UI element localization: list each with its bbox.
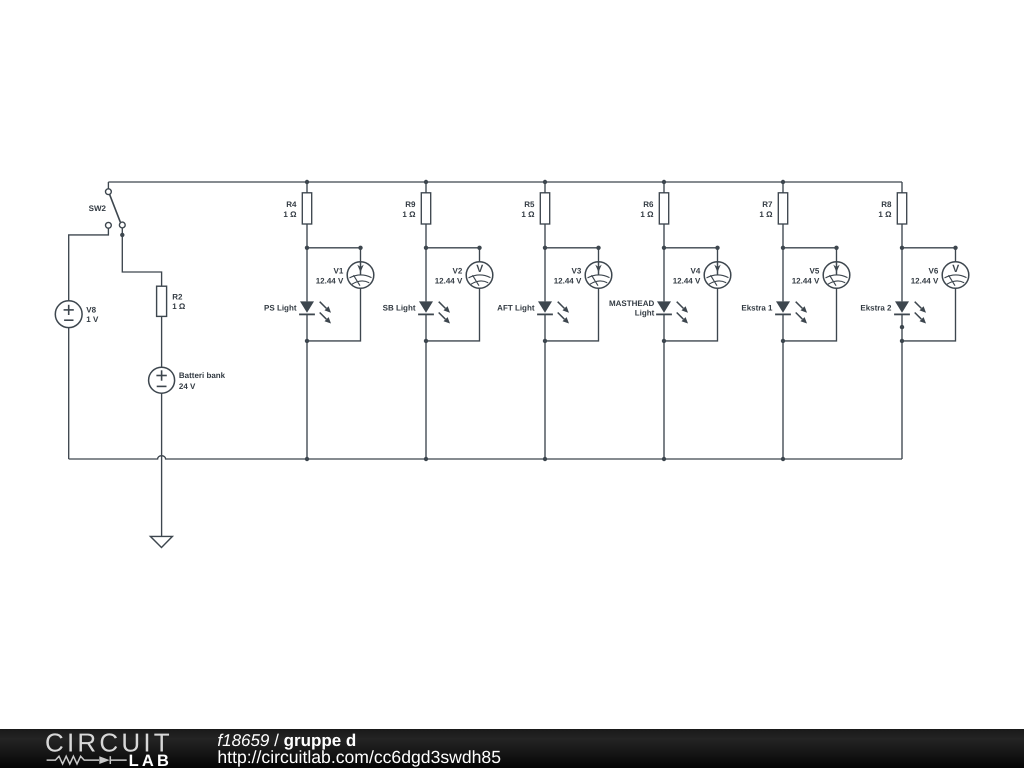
wire tee to voltmeter V1 — [307, 248, 361, 262]
wire R4 to LED PS Light — [306, 224, 308, 301]
resistor R6 1 Ohm — [659, 193, 668, 224]
voltage source Batteri bank 24 V — [149, 367, 175, 393]
svg-text:1 Ω: 1 Ω — [878, 210, 892, 219]
wire R2 to battery — [161, 316, 163, 367]
svg-text:1 Ω: 1 Ω — [640, 210, 654, 219]
junction tee at branch R6 — [662, 246, 666, 250]
resistor R2 1 Ohm — [157, 286, 167, 316]
wire tee to voltmeter V6 — [902, 248, 956, 262]
junction at voltmeter V6 top — [953, 246, 957, 250]
svg-text:V5: V5 — [810, 267, 820, 276]
junction bottom tee at branch R5 — [543, 339, 547, 343]
wire LED SB Light to bottom tee — [425, 314, 427, 341]
svg-text:12.44 V: 12.44 V — [435, 276, 463, 285]
svg-text:Ekstra 1: Ekstra 1 — [741, 303, 773, 312]
svg-text:R7: R7 — [762, 200, 773, 209]
wire R7 to LED Ekstra 1 — [782, 224, 784, 301]
voltmeter V2 — [466, 262, 493, 289]
LED AFT Light — [537, 301, 569, 323]
wire R9 to LED SB Light — [425, 224, 427, 301]
junction top rail at R6 — [662, 180, 666, 184]
junction bottom tee at branch R7 — [781, 339, 785, 343]
junction bottom tee at branch R8 — [900, 339, 904, 343]
junction top rail at R9 — [424, 180, 428, 184]
wire top rail to R6 — [663, 182, 665, 193]
svg-text:LAB: LAB — [129, 752, 173, 768]
switch SW2 — [106, 182, 126, 228]
voltmeter V6 — [942, 262, 969, 289]
svg-text:12.44 V: 12.44 V — [792, 276, 820, 285]
svg-text:24 V: 24 V — [179, 382, 196, 391]
junction at voltmeter V2 top — [477, 246, 481, 250]
svg-text:1 Ω: 1 Ω — [759, 210, 773, 219]
wire V8 to bottom rail — [68, 328, 70, 459]
junction tee at branch R7 — [781, 246, 785, 250]
svg-text:AFT Light: AFT Light — [497, 303, 535, 312]
svg-text:V2: V2 — [453, 267, 463, 276]
svg-text:R2: R2 — [172, 292, 183, 301]
LED SB Light — [418, 301, 450, 323]
wire top rail to R9 — [425, 182, 427, 193]
svg-text:Batteri bank: Batteri bank — [179, 371, 226, 380]
svg-text:12.44 V: 12.44 V — [673, 276, 701, 285]
junction top rail at R7 — [781, 180, 785, 184]
wire branch R6 to bottom rail — [663, 341, 665, 459]
resistor R9 1 Ohm — [421, 193, 430, 224]
svg-text:MASTHEAD: MASTHEAD — [609, 299, 655, 308]
svg-text:R5: R5 — [524, 200, 535, 209]
svg-text:V4: V4 — [691, 267, 701, 276]
wire voltmeter V1 return — [307, 288, 361, 341]
svg-text:Light: Light — [635, 309, 655, 318]
wire branch R7 to bottom rail — [782, 341, 784, 459]
wire branch R5 to bottom rail — [544, 341, 546, 459]
wire SW2 common to R2 — [122, 228, 161, 286]
junction bottom tee at branch R4 — [305, 339, 309, 343]
junction at voltmeter V5 top — [834, 246, 838, 250]
wire top rail to R4 — [306, 182, 308, 193]
junction SW2 common net — [120, 233, 124, 237]
wire voltmeter V2 return — [426, 288, 480, 341]
svg-text:12.44 V: 12.44 V — [316, 276, 344, 285]
voltmeter V5 — [823, 262, 850, 289]
svg-text:SB Light: SB Light — [383, 303, 416, 312]
svg-text:12.44 V: 12.44 V — [911, 276, 939, 285]
wire voltmeter V5 return — [783, 288, 837, 341]
svg-text:V: V — [476, 263, 483, 275]
wire tee to voltmeter V2 — [426, 248, 480, 262]
svg-text:Ekstra 2: Ekstra 2 — [860, 303, 892, 312]
wire LED PS Light to bottom tee — [306, 314, 308, 341]
CircuitLab logo resistor-diode symbol — [47, 756, 127, 764]
junction at voltmeter V3 top — [596, 246, 600, 250]
svg-text:PS Light: PS Light — [264, 303, 297, 312]
wire LED MASTHEAD Light to bottom tee — [663, 314, 665, 341]
voltmeter V4 — [704, 262, 731, 289]
svg-text:V: V — [952, 263, 959, 275]
wire top rail net — [108, 181, 902, 183]
junction tee at branch R5 — [543, 246, 547, 250]
wire top rail to R7 — [782, 182, 784, 193]
junction tee at branch R4 — [305, 246, 309, 250]
wire branch R8 to bottom rail — [901, 341, 903, 459]
junction bottom rail at R7 — [781, 457, 785, 461]
wire voltmeter V4 return — [664, 288, 718, 341]
wire top rail to R8 — [901, 182, 903, 193]
voltmeter V1 — [347, 262, 374, 289]
wire battery to ground (crosses bottom rail) — [161, 393, 163, 536]
voltmeter V3 — [585, 262, 612, 289]
svg-text:V6: V6 — [929, 267, 939, 276]
svg-text:V1: V1 — [334, 267, 344, 276]
wire LED Ekstra 1 to bottom tee — [782, 314, 784, 341]
svg-text:R9: R9 — [405, 200, 416, 209]
wire tee to voltmeter V4 — [664, 248, 718, 262]
LED PS Light — [299, 301, 331, 323]
resistor R7 1 Ohm — [778, 193, 787, 224]
svg-text:V8: V8 — [86, 305, 96, 314]
svg-text:1 V: 1 V — [86, 315, 99, 324]
wire LED AFT Light to bottom tee — [544, 314, 546, 341]
wire LED Ekstra 2 to bottom tee — [901, 314, 903, 341]
wire branch R9 to bottom rail — [425, 341, 427, 459]
junction bottom tee at branch R6 — [662, 339, 666, 343]
junction bottom rail at R4 — [305, 457, 309, 461]
ground symbol — [150, 536, 172, 547]
junction bottom tee at branch R9 — [424, 339, 428, 343]
voltage source V8 1V — [55, 301, 82, 328]
svg-text:1 Ω: 1 Ω — [172, 302, 186, 311]
LED Ekstra 1 — [775, 301, 807, 323]
svg-text:http://circuitlab.com/cc6dgd3s: http://circuitlab.com/cc6dgd3swdh85 — [217, 747, 501, 767]
junction bottom rail at R9 — [424, 457, 428, 461]
LED Ekstra 2 — [894, 301, 926, 323]
junction top rail at R5 — [543, 180, 547, 184]
wire R5 to LED AFT Light — [544, 224, 546, 301]
wire branch R4 to bottom rail — [306, 341, 308, 459]
svg-text:V3: V3 — [572, 267, 582, 276]
wire top rail to R5 — [544, 182, 546, 193]
junction bottom rail at R6 — [662, 457, 666, 461]
wire tee to voltmeter V5 — [783, 248, 837, 262]
wire tee to voltmeter V3 — [545, 248, 599, 262]
svg-text:1 Ω: 1 Ω — [283, 210, 297, 219]
wire voltmeter V3 return — [545, 288, 599, 341]
svg-text:R8: R8 — [881, 200, 892, 209]
wire bottom rail net with crossover hop — [69, 456, 902, 459]
junction at voltmeter V1 top — [358, 246, 362, 250]
resistor R5 1 Ohm — [540, 193, 549, 224]
svg-text:SW2: SW2 — [89, 204, 107, 213]
wire voltmeter V6 return — [902, 288, 956, 341]
svg-text:R6: R6 — [643, 200, 654, 209]
wire SW2 left throw to V8 top — [69, 228, 109, 301]
svg-text:1 Ω: 1 Ω — [402, 210, 416, 219]
junction at voltmeter V4 top — [715, 246, 719, 250]
resistor R8 1 Ohm — [897, 193, 906, 224]
svg-text:1 Ω: 1 Ω — [521, 210, 535, 219]
junction bottom rail at R5 — [543, 457, 547, 461]
wire R8 to LED Ekstra 2 — [901, 224, 903, 301]
junction extra net dot branch R8 — [900, 325, 904, 329]
junction top rail at R4 — [305, 180, 309, 184]
svg-text:12.44 V: 12.44 V — [554, 276, 582, 285]
junction tee at branch R8 — [900, 246, 904, 250]
wire R6 to LED MASTHEAD Light — [663, 224, 665, 301]
resistor R4 1 Ohm — [302, 193, 311, 224]
LED MASTHEAD Light — [656, 301, 688, 323]
junction tee at branch R9 — [424, 246, 428, 250]
svg-text:R4: R4 — [286, 200, 297, 209]
